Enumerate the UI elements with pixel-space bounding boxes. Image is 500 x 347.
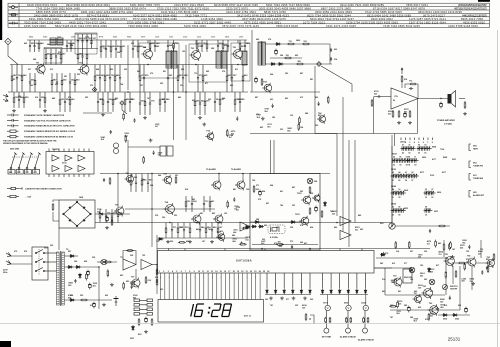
page edge top-left — [0, 0, 2, 40]
svg-text:285: 285 — [404, 305, 407, 307]
diode FMD1 — [275, 43, 281, 46]
resistor Raf1 — [443, 243, 445, 251]
svg-text:R63: R63 — [380, 223, 383, 225]
svg-text:9: 9 — [195, 277, 196, 279]
ground al3G3 — [471, 282, 475, 286]
svg-text:773: 773 — [120, 257, 123, 259]
svg-text:7866 6617 6031: 7866 6617 6031 — [406, 3, 428, 7]
svg-text:0679 2470 8227: 0679 2470 8227 — [423, 13, 445, 17]
transistor fm3TS4 — [317, 114, 326, 124]
wire FB — [417, 84, 418, 99]
svg-text:15: 15 — [220, 271, 222, 273]
svg-text:732: 732 — [12, 79, 15, 81]
capacitor b29C0 — [214, 92, 216, 112]
svg-text:TS7: TS7 — [414, 293, 417, 295]
svg-text:3k1: 3k1 — [427, 243, 430, 245]
pin bus labels — [160, 277, 256, 279]
resistor FMR4 — [296, 63, 304, 65]
electrolytic capacitor bzE12 — [407, 306, 410, 313]
capacitor Cm1 — [103, 178, 105, 182]
capacitor aicC3 — [218, 237, 222, 239]
transistor TS36 — [428, 304, 439, 316]
resistor BR5 — [367, 317, 369, 323]
ground Gm3 — [210, 240, 214, 244]
svg-text:452: 452 — [212, 212, 215, 215]
svg-text:1192: 1192 — [169, 37, 173, 39]
diode Dbz2 — [452, 314, 458, 317]
svg-text:915: 915 — [304, 41, 307, 43]
diode FMD3 — [278, 63, 284, 66]
transistor TS3 — [142, 48, 153, 60]
svg-text:052: 052 — [77, 74, 80, 76]
svg-text:388: 388 — [256, 219, 259, 221]
svg-text:9k3: 9k3 — [420, 275, 423, 277]
capacitor b18C1 — [143, 65, 145, 93]
svg-text:4180 5788 9148 6546: 4180 5788 9148 6546 — [448, 24, 478, 28]
electrolytic capacitor C132 — [315, 206, 318, 213]
svg-text:6051: 6051 — [434, 211, 438, 213]
diode D133 — [324, 201, 327, 207]
resistor Rc0b — [156, 278, 158, 286]
FM IF transformer — [258, 41, 265, 66]
svg-text:9919: 9919 — [141, 37, 145, 39]
svg-text:490: 490 — [285, 97, 288, 100]
electrolytic capacitor Cc1 — [145, 317, 148, 324]
ground DG1 — [280, 297, 284, 301]
svg-text:212: 212 — [50, 69, 53, 71]
svg-text:542: 542 — [380, 262, 383, 265]
wire RAILB — [44, 48, 98, 50]
svg-text:18: 18 — [233, 271, 235, 273]
svg-text:159: 159 — [420, 265, 423, 267]
switch bank SK3_405 — [404, 174, 419, 178]
svg-text:V: V — [347, 306, 349, 310]
pilot lamp — [101, 260, 107, 265]
wire DROP1 — [314, 66, 316, 134]
svg-text:847: 847 — [292, 186, 295, 189]
svg-text:052: 052 — [276, 227, 279, 229]
push button B1 — [324, 311, 329, 333]
resistor Rao2 — [493, 253, 495, 261]
wire Want — [8, 45, 18, 65]
svg-text:95: 95 — [399, 156, 401, 158]
wire OW2 — [252, 244, 318, 246]
svg-text:0191 3274 2315 9425: 0191 3274 2315 9425 — [326, 24, 356, 28]
svg-text:518: 518 — [404, 79, 407, 81]
capacitor mb0C1 — [135, 174, 137, 193]
svg-text:422: 422 — [120, 274, 123, 277]
wire MRAIL — [100, 173, 330, 175]
electrolytic capacitor C_e — [404, 112, 407, 119]
IC pins bottom — [49, 174, 89, 177]
svg-text:16: 16 — [224, 271, 226, 273]
svg-text:696: 696 — [181, 69, 184, 71]
svg-text:53: 53 — [414, 164, 416, 166]
svg-text:606: 606 — [300, 242, 303, 244]
capacitor b4C2 — [86, 34, 88, 49]
svg-text:1125 3287 0465 5721 0141: 1125 3287 0465 5721 0141 — [409, 17, 446, 21]
resistor b5R0 — [77, 49, 79, 65]
svg-text:34: 34 — [405, 179, 407, 182]
capacitor b10C0 — [217, 40, 219, 52]
svg-text:V: V — [365, 306, 367, 310]
svg-text:1k9: 1k9 — [302, 307, 305, 309]
svg-text:TS3: TS3 — [423, 286, 426, 288]
svg-text:4k6: 4k6 — [460, 246, 463, 249]
transistor TS30 — [444, 255, 455, 267]
resistor b9R0 — [196, 40, 198, 52]
svg-text:6092: 6092 — [443, 319, 447, 321]
capacitor b22C0 — [39, 92, 41, 108]
resistor mb2R3 — [209, 196, 211, 212]
svg-text:2: 2 — [186, 277, 187, 279]
wire Wbr1 — [53, 200, 59, 202]
svg-text:3212 2330 7924 4026 8599 5289: 3212 2330 7924 4026 8599 5289 — [340, 3, 384, 7]
ground G1 — [12, 109, 16, 113]
resistor aicR4 — [178, 242, 186, 244]
aux legend 2 — [7, 195, 19, 197]
svg-text:11: 11 — [414, 156, 416, 158]
svg-text:8365 4610 7358: 8365 4610 7358 — [461, 17, 483, 21]
svg-text:5k7: 5k7 — [158, 155, 161, 157]
resistor Rt9 — [175, 176, 177, 184]
ground G2 — [43, 109, 47, 113]
svg-text:5k1: 5k1 — [430, 316, 433, 318]
capacitor b4C0 — [77, 34, 79, 49]
bridge rectifier GR1 — [64, 202, 91, 226]
dial lamp LA2 — [409, 267, 415, 273]
capacitor b19C2 — [197, 65, 199, 93]
IC top pin stubs — [169, 249, 362, 251]
wire Ws2 — [64, 266, 99, 268]
svg-text:699: 699 — [137, 71, 140, 73]
svg-text:699: 699 — [206, 71, 209, 73]
resistor lm3R0 — [226, 129, 228, 137]
transistor TSsup — [114, 206, 124, 217]
switch bank SK4_392 — [391, 191, 406, 195]
svg-text:571: 571 — [34, 172, 37, 174]
svg-text:889: 889 — [358, 215, 361, 217]
svg-text:TS0: TS0 — [79, 63, 82, 65]
resistor R_v1 — [401, 75, 403, 83]
svg-text:857: 857 — [318, 115, 321, 117]
resistor al1R4 — [435, 240, 437, 248]
svg-text:613: 613 — [90, 305, 93, 307]
svg-text:779: 779 — [480, 249, 483, 251]
svg-text:TS8: TS8 — [165, 202, 168, 204]
wire FMWB — [270, 57, 302, 59]
svg-text:SAF1039A: SAF1039A — [236, 259, 252, 263]
svg-text:3816: 3816 — [225, 37, 229, 39]
capacitor b6C3 — [115, 40, 117, 58]
transistor TS1 — [35, 63, 45, 74]
svg-text:56: 56 — [398, 206, 400, 208]
svg-text:8838 7371 6786: 8838 7371 6786 — [264, 10, 286, 14]
svg-text:4837 2616 7513 6134 1252 4273: 4837 2616 7513 6134 1252 4273 1672 — [454, 7, 487, 11]
capacitor b4C1 — [81, 34, 83, 49]
resistor Rm1 — [109, 177, 111, 185]
svg-text:8k3: 8k3 — [279, 246, 282, 248]
wire SF1 — [147, 40, 149, 43]
svg-text:8k3: 8k3 — [414, 321, 417, 323]
svg-text:11: 11 — [392, 197, 394, 199]
svg-text:TCA979: TCA979 — [52, 148, 59, 151]
svg-text:312: 312 — [90, 85, 93, 87]
svg-text:STANDARD CARBON RESISTOR E12 S: STANDARD CARBON RESISTOR E12 SERIES 0.12… — [24, 130, 75, 133]
switch bank SK5_392 — [391, 208, 406, 212]
svg-text:9: 9 — [221, 277, 222, 279]
resistor b9R2 — [206, 40, 208, 52]
capacitor b24C2 — [107, 92, 109, 112]
resistor b29R1 — [219, 92, 221, 112]
capacitor mb0C3 — [147, 174, 149, 193]
transistor TS34 — [422, 287, 433, 299]
wire RAILM — [250, 133, 418, 135]
svg-text:7872 0097 7379 7276 1125: 7872 0097 7379 7276 1125 — [222, 24, 259, 28]
capacitor b8bC0 — [167, 40, 169, 52]
svg-text:926: 926 — [170, 241, 173, 243]
transistor TS11 — [211, 180, 221, 191]
wire FMWA — [265, 43, 330, 45]
svg-text:819: 819 — [274, 243, 277, 245]
ground Gm2 — [188, 240, 192, 244]
resistor affR2 — [143, 156, 145, 164]
svg-text:8778: 8778 — [99, 37, 103, 39]
resistor al2R0 — [449, 242, 451, 250]
wire RAIL0 — [27, 39, 247, 41]
svg-text:VERSION DESCRIBED IN THIS SERV: VERSION DESCRIBED IN THIS SERVICE MANUAL — [3, 142, 49, 145]
wire Waff — [128, 146, 160, 148]
svg-text:6k6: 6k6 — [398, 303, 401, 305]
resistor b21R0 — [13, 92, 15, 108]
resistor Rc0 — [156, 268, 158, 276]
connector FMC — [317, 62, 322, 67]
resistor BR0 — [325, 317, 327, 323]
svg-text:7880 0215 8108: 7880 0215 8108 — [276, 24, 298, 28]
wire SCR2 — [185, 45, 187, 140]
svg-text:TS7: TS7 — [131, 277, 134, 279]
svg-text:526: 526 — [130, 99, 133, 101]
diode DDb3 — [347, 289, 350, 294]
svg-text:95: 95 — [398, 214, 400, 216]
diode aicD6 — [158, 238, 164, 241]
capacitor b1C0 — [29, 40, 31, 52]
resistor b16R0 — [94, 65, 96, 92]
svg-text:742: 742 — [208, 228, 211, 231]
volume potentiometer — [389, 223, 395, 229]
svg-text:678: 678 — [256, 114, 259, 116]
wire LV5 — [391, 135, 393, 226]
svg-text:2590 5489: 2590 5489 — [10, 148, 19, 151]
svg-text:2: 2 — [247, 277, 248, 279]
svg-text:417: 417 — [436, 264, 439, 267]
svg-text:995: 995 — [192, 100, 195, 102]
resistor b28R0 — [194, 92, 196, 115]
push button B2 — [346, 311, 351, 333]
resistor bzR3 — [389, 305, 397, 307]
svg-text:90: 90 — [393, 100, 395, 102]
bank SK4_392 labels — [392, 188, 400, 199]
resistor b20R0 — [226, 65, 228, 92]
capacitor b6C1 — [105, 40, 107, 58]
svg-text:430: 430 — [70, 294, 73, 297]
svg-text:2460: 2460 — [296, 39, 300, 42]
capacitor b24C0 — [97, 92, 99, 112]
svg-text:3: 3 — [203, 277, 204, 279]
resistor b6R4 — [120, 40, 122, 58]
electrolytic capacitor psE7 — [88, 283, 91, 290]
svg-text:4956 6053 6630: 4956 6053 6630 — [463, 20, 485, 24]
bank SK4_425 labels — [425, 189, 433, 199]
svg-text:1: 1 — [159, 271, 160, 273]
svg-text:062: 062 — [424, 279, 427, 281]
ground G3 — [101, 113, 105, 117]
wire DROP2 — [373, 97, 375, 134]
svg-text:4446 3478 6122 1387 8375: 4446 3478 6122 1387 8375 — [462, 13, 487, 17]
switch bank SK4_425 — [424, 191, 436, 195]
svg-text:3645 0749 5288 3143 6676 4020: 3645 0749 5288 3143 6676 4020 6797 — [75, 17, 127, 21]
svg-text:147: 147 — [452, 248, 455, 251]
svg-text:4537 8383 0640 0376 1436 5370: 4537 8383 0640 0376 1436 5370 — [242, 17, 286, 21]
wire RAILA — [75, 33, 97, 35]
svg-text:7: 7 — [185, 271, 186, 273]
capacitor mb1C1 — [105, 209, 107, 223]
rail junction dots — [40, 64, 42, 66]
svg-text:13: 13 — [211, 271, 213, 273]
svg-text:136: 136 — [290, 115, 293, 117]
svg-text:4k5: 4k5 — [231, 133, 234, 136]
svg-text:850: 850 — [486, 259, 489, 261]
resistor b2R3 — [60, 49, 62, 65]
diode Dbo — [98, 213, 104, 216]
capacitor fm3C1 — [318, 102, 320, 106]
wire FMVR — [329, 44, 331, 64]
connector ANT — [5, 38, 11, 44]
op-amp A5 — [141, 260, 152, 270]
IF shield box 3 — [231, 43, 250, 81]
bank SK3_392 labels — [392, 171, 400, 182]
electrolytic capacitor FME2 — [255, 77, 258, 84]
capacitor bzC6 — [409, 268, 411, 272]
svg-text:7k1: 7k1 — [438, 254, 441, 256]
mains plug — [6, 252, 11, 264]
resistor bzR11 — [445, 271, 447, 279]
bank SK1_418 labels — [418, 143, 426, 154]
svg-text:1148 9364 3900: 1148 9364 3900 — [201, 17, 223, 21]
svg-text:3k3: 3k3 — [418, 257, 421, 259]
svg-text:63: 63 — [392, 214, 394, 216]
wire AIN2 — [381, 96, 391, 98]
svg-text:333: 333 — [280, 129, 283, 131]
svg-text:TS3: TS3 — [393, 276, 396, 278]
svg-text:2 W (4Ω): 2 W (4Ω) — [444, 123, 452, 126]
svg-text:238: 238 — [92, 257, 95, 259]
diode DDb0 — [321, 289, 324, 294]
svg-text:4: 4 — [160, 277, 161, 279]
svg-text:266: 266 — [134, 177, 137, 179]
capacitor mc1C0 — [233, 197, 235, 201]
resistor b7R1 — [137, 40, 139, 58]
svg-text:689: 689 — [232, 235, 235, 237]
svg-text:291: 291 — [241, 46, 244, 48]
bank SK5_425 labels — [425, 206, 427, 216]
wire WAO — [455, 262, 468, 264]
wire Wpot — [395, 225, 450, 227]
resistor b16R2 — [104, 65, 106, 92]
svg-text:9k9: 9k9 — [287, 130, 290, 132]
resistor b2R1 — [50, 49, 52, 65]
resistor Rbr1 — [52, 203, 54, 211]
capacitor Cao — [486, 266, 488, 270]
svg-text:019: 019 — [444, 305, 447, 307]
svg-text:TUNER FM: TUNER FM — [473, 165, 483, 167]
capacitor lmC1 — [110, 130, 112, 134]
svg-text:2001 8263 3043 4839 5486 2057: 2001 8263 3043 4839 5486 2057 9868 — [259, 7, 311, 11]
svg-text:01: 01 — [405, 172, 407, 174]
wire OS1 — [261, 249, 263, 251]
svg-text:430: 430 — [418, 306, 421, 309]
svg-text:499: 499 — [186, 240, 189, 243]
mains switch contact 3 — [35, 268, 56, 272]
svg-text:418: 418 — [185, 188, 188, 191]
svg-text:8371: 8371 — [420, 172, 424, 174]
svg-text:5120: 5120 — [430, 175, 434, 177]
transistor TS14 — [299, 216, 309, 227]
transistor TS31 — [466, 257, 476, 268]
svg-text:09: 09 — [411, 172, 413, 174]
power amplifier — [391, 88, 418, 109]
capacitor b1C1 — [33, 40, 35, 52]
svg-text:443: 443 — [438, 242, 441, 245]
wire AOUT — [418, 98, 448, 100]
svg-text:3158 2794 0199 5305 5203 4093: 3158 2794 0199 5305 5203 4093 0565 — [346, 20, 398, 24]
svg-text:POWER AMPLIFIER: POWER AMPLIFIER — [437, 119, 455, 122]
svg-text:23: 23 — [254, 271, 256, 273]
svg-text:5k1: 5k1 — [388, 113, 391, 115]
svg-text:6865 6355 1505 8770: 6865 6355 1505 8770 — [36, 10, 66, 14]
svg-text:TS78: TS78 — [295, 214, 300, 216]
svg-text:5235: 5235 — [361, 303, 365, 305]
capacitor b5C1 — [81, 49, 83, 65]
svg-text:6844: 6844 — [29, 37, 33, 39]
svg-text:650: 650 — [360, 229, 363, 231]
svg-text:7k2: 7k2 — [391, 282, 394, 284]
diode DDa4 — [300, 289, 303, 294]
capacitor b9C1 — [201, 40, 203, 52]
svg-text:322: 322 — [265, 299, 268, 301]
svg-text:TS ALARM: TS ALARM — [231, 168, 241, 171]
capacitor b17C0 — [109, 65, 111, 93]
svg-text:2k8: 2k8 — [461, 281, 464, 283]
svg-text:2159 0109 2815 9013 9624 5957: 2159 0109 2815 9013 9624 5957 — [458, 3, 487, 7]
legend symbol cap3 — [7, 124, 19, 127]
capacitor lm3C1 — [236, 117, 238, 121]
svg-text:2200: 2200 — [155, 37, 159, 39]
diode DDb2 — [338, 289, 341, 294]
svg-text:827: 827 — [68, 251, 71, 253]
svg-text:7248 7394 9835 5032 6245: 7248 7394 9835 5032 6245 — [383, 24, 420, 28]
resistor mb0R0 — [130, 174, 132, 192]
resistor b5R2 — [86, 49, 88, 65]
clock IC — [158, 251, 375, 274]
transistor TS16 — [213, 214, 223, 225]
wire LV2 — [342, 97, 344, 231]
resistor al3R4 — [487, 265, 489, 273]
resistor b15R1 — [74, 73, 76, 92]
svg-text:3k5: 3k5 — [93, 285, 96, 287]
svg-text:689: 689 — [156, 46, 159, 48]
wire WAO2 — [476, 262, 493, 264]
